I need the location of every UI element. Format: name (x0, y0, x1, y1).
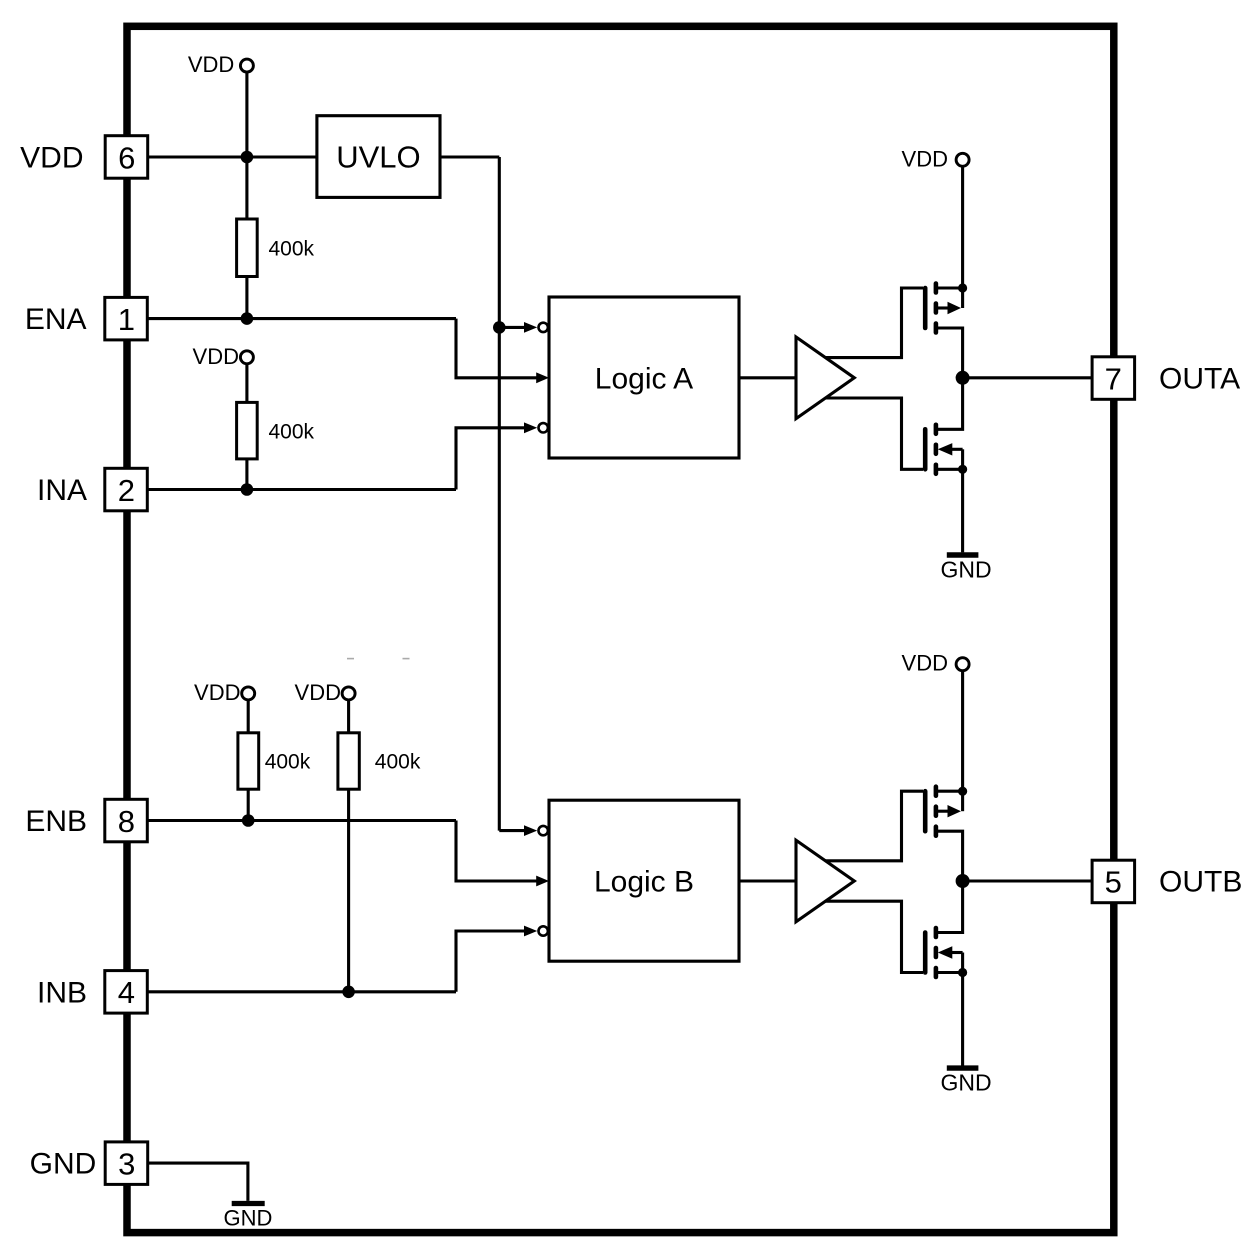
wire buffer B lower fork to NMOS gate (822, 901, 923, 972)
svg-text:400k: 400k (375, 751, 421, 774)
inverting bubble Logic A top (539, 323, 548, 332)
wire UVLO bus arm to Logic B top input (499, 829, 526, 832)
pin box 7 OUTA (1092, 357, 1135, 400)
wire ENB jog to Logic B middle input (456, 821, 537, 882)
svg-text:VDD: VDD (188, 52, 234, 77)
wire Logic B output to buffer (739, 879, 796, 882)
Logic B block (549, 800, 739, 961)
transistor Q4 NMOS output stage B (925, 881, 962, 977)
arrow input Logic A bottom (INA) (524, 422, 537, 433)
wire buffer B upper fork to PMOS gate (822, 791, 923, 861)
pin box 8 ENB (105, 799, 148, 842)
wire resistor R3 bottom stem to ENB (247, 789, 250, 820)
wire VDD terminal T3 stem to R3 (247, 700, 250, 733)
svg-text:VDD: VDD (902, 651, 948, 676)
svg-text:GND: GND (30, 1148, 97, 1181)
svg-text:VDD: VDD (20, 142, 83, 175)
junction node ENA/R1 (241, 312, 254, 325)
artifact dash left (347, 658, 354, 660)
wire INB pin4 horizontal (147, 990, 456, 993)
wire INA jog to Logic A bottom input (456, 428, 526, 490)
arrow input Logic B bottom (INB) (524, 926, 537, 937)
wire VDD terminal T4 stem to R4 (347, 700, 350, 733)
junction node INB/R4 (342, 986, 355, 999)
svg-text:OUTA: OUTA (1159, 362, 1240, 395)
svg-text:4: 4 (118, 975, 135, 1010)
wire UVLO output vertical bus (498, 157, 501, 831)
wire resistor R1 top stem (245, 157, 248, 219)
pin box 3 GND (105, 1142, 148, 1185)
wire OUTB node to pin 5 (963, 879, 1092, 882)
junction node UVLO bus / Logic A arm (493, 321, 506, 334)
buffer amplifier A (796, 337, 854, 419)
svg-text:Logic B: Logic B (594, 866, 694, 899)
VDD terminal T4 (INB pull-up) (295, 680, 356, 705)
artifact dash right (403, 658, 410, 660)
pin box 6 VDD (105, 136, 148, 179)
VDD terminal T6 (output stage B) (902, 651, 970, 676)
svg-text:OUTB: OUTB (1159, 866, 1242, 899)
svg-text:GND: GND (224, 1206, 273, 1231)
svg-text:INA: INA (37, 474, 87, 507)
svg-text:6: 6 (118, 140, 135, 175)
svg-text:5: 5 (1105, 865, 1122, 900)
svg-text:GND: GND (940, 1070, 991, 1096)
svg-text:INB: INB (37, 976, 87, 1009)
ground symbol pin3 net (224, 1204, 273, 1231)
VDD terminal T5 (output stage A) (902, 146, 970, 171)
svg-text:1: 1 (118, 302, 135, 337)
svg-text:ENB: ENB (25, 805, 87, 838)
junction node PMOS B source/VDD (958, 787, 967, 796)
pin box 1 ENA (105, 297, 148, 340)
arrow input Logic A top (from UVLO) (524, 322, 537, 333)
wire VDD terminal T1 stem to pin6 net (245, 72, 248, 157)
svg-text:400k: 400k (265, 751, 311, 774)
wire resistor R2 bottom stem to INA (245, 459, 248, 490)
wire UVLO bus arm to Logic A top input (499, 326, 526, 329)
wire INB jog to Logic B bottom input (456, 931, 526, 992)
buffer amplifier B (796, 840, 854, 922)
svg-text:3: 3 (118, 1146, 135, 1181)
svg-text:GND: GND (940, 557, 991, 583)
svg-text:VDD: VDD (295, 680, 341, 705)
svg-text:VDD: VDD (194, 680, 240, 705)
wire Logic A output to buffer (739, 376, 796, 379)
svg-text:400k: 400k (269, 238, 315, 261)
resistor R4 400k INB pull-up (338, 733, 421, 789)
junction node NMOS A source/GND (958, 465, 967, 474)
svg-text:8: 8 (118, 804, 135, 839)
resistor R3 400k ENB pull-up (238, 733, 311, 789)
inverting bubble Logic B top (539, 826, 548, 835)
junction node NMOS B source/GND (958, 968, 967, 977)
VDD terminal T2 (INA pull-up) (193, 344, 254, 369)
svg-text:UVLO: UVLO (336, 140, 420, 175)
svg-text:VDD: VDD (902, 146, 948, 171)
VDD terminal T3 (ENB pull-up) (194, 680, 255, 705)
wire resistor R1 bottom stem to ENA (245, 277, 248, 319)
wire GND pin3 to ground symbol (148, 1163, 248, 1201)
svg-text:VDD: VDD (193, 344, 239, 369)
wire GND A stem (961, 469, 964, 552)
arrow input Logic A middle (ENA) (536, 372, 549, 383)
transistor Q2 NMOS output stage A (925, 378, 962, 474)
wire buffer A lower fork to NMOS gate (822, 398, 923, 469)
wire ENA jog to Logic A middle input (456, 319, 537, 378)
junction node INA/R2 (241, 483, 254, 496)
svg-text:400k: 400k (269, 420, 315, 443)
svg-text:ENA: ENA (25, 303, 87, 336)
junction node pin6/VDD (241, 151, 254, 164)
transistor Q3 PMOS output stage B (925, 787, 962, 881)
node OUTB (956, 874, 970, 888)
wire VDD terminal T5 stem to PMOS A source (961, 167, 964, 288)
inverting bubble Logic B bottom (539, 926, 548, 935)
wire INA pin2 horizontal (147, 488, 456, 491)
UVLO block U1 (317, 116, 440, 198)
wire ENA pin1 horizontal (147, 317, 456, 320)
wire buffer A upper fork to PMOS gate (822, 288, 923, 358)
transistor Q1 PMOS output stage A (925, 284, 962, 378)
wire OUTA node to pin 7 (963, 376, 1092, 379)
pin box 5 OUTB (1092, 860, 1135, 903)
wire VDD terminal T2 stem to R2 (245, 364, 248, 403)
pin box 2 INA (105, 468, 148, 511)
svg-text:7: 7 (1105, 361, 1122, 396)
inverting bubble Logic A bottom (539, 423, 548, 432)
wire GND B stem (961, 973, 964, 1066)
arrow input Logic B middle (ENB) (536, 876, 549, 887)
VDD terminal T1 (pin6 net) (188, 52, 254, 77)
ground symbol GND A (940, 555, 991, 583)
pin box 4 INB (105, 971, 148, 1014)
wire UVLO output to vertical bus (440, 155, 499, 158)
wire pin6 to UVLO input (148, 155, 317, 158)
wire resistor R4 bottom stem to INB (347, 789, 350, 992)
node OUTA (956, 371, 970, 385)
wire VDD terminal T6 stem to PMOS B source (961, 671, 964, 791)
ground symbol GND B (940, 1068, 991, 1096)
svg-text:2: 2 (118, 473, 135, 508)
junction node PMOS A source/VDD (958, 283, 967, 292)
IC boundary border (127, 26, 1114, 1232)
wire ENB pin8 horizontal (147, 819, 456, 822)
arrow input Logic B top (from UVLO) (524, 825, 537, 836)
resistor R1 400k ENA pull-up (237, 219, 315, 277)
junction node ENB/R3 (242, 814, 255, 827)
svg-text:Logic A: Logic A (595, 363, 693, 396)
resistor R2 400k INA pull-up (237, 402, 315, 459)
Logic A block (549, 297, 739, 458)
